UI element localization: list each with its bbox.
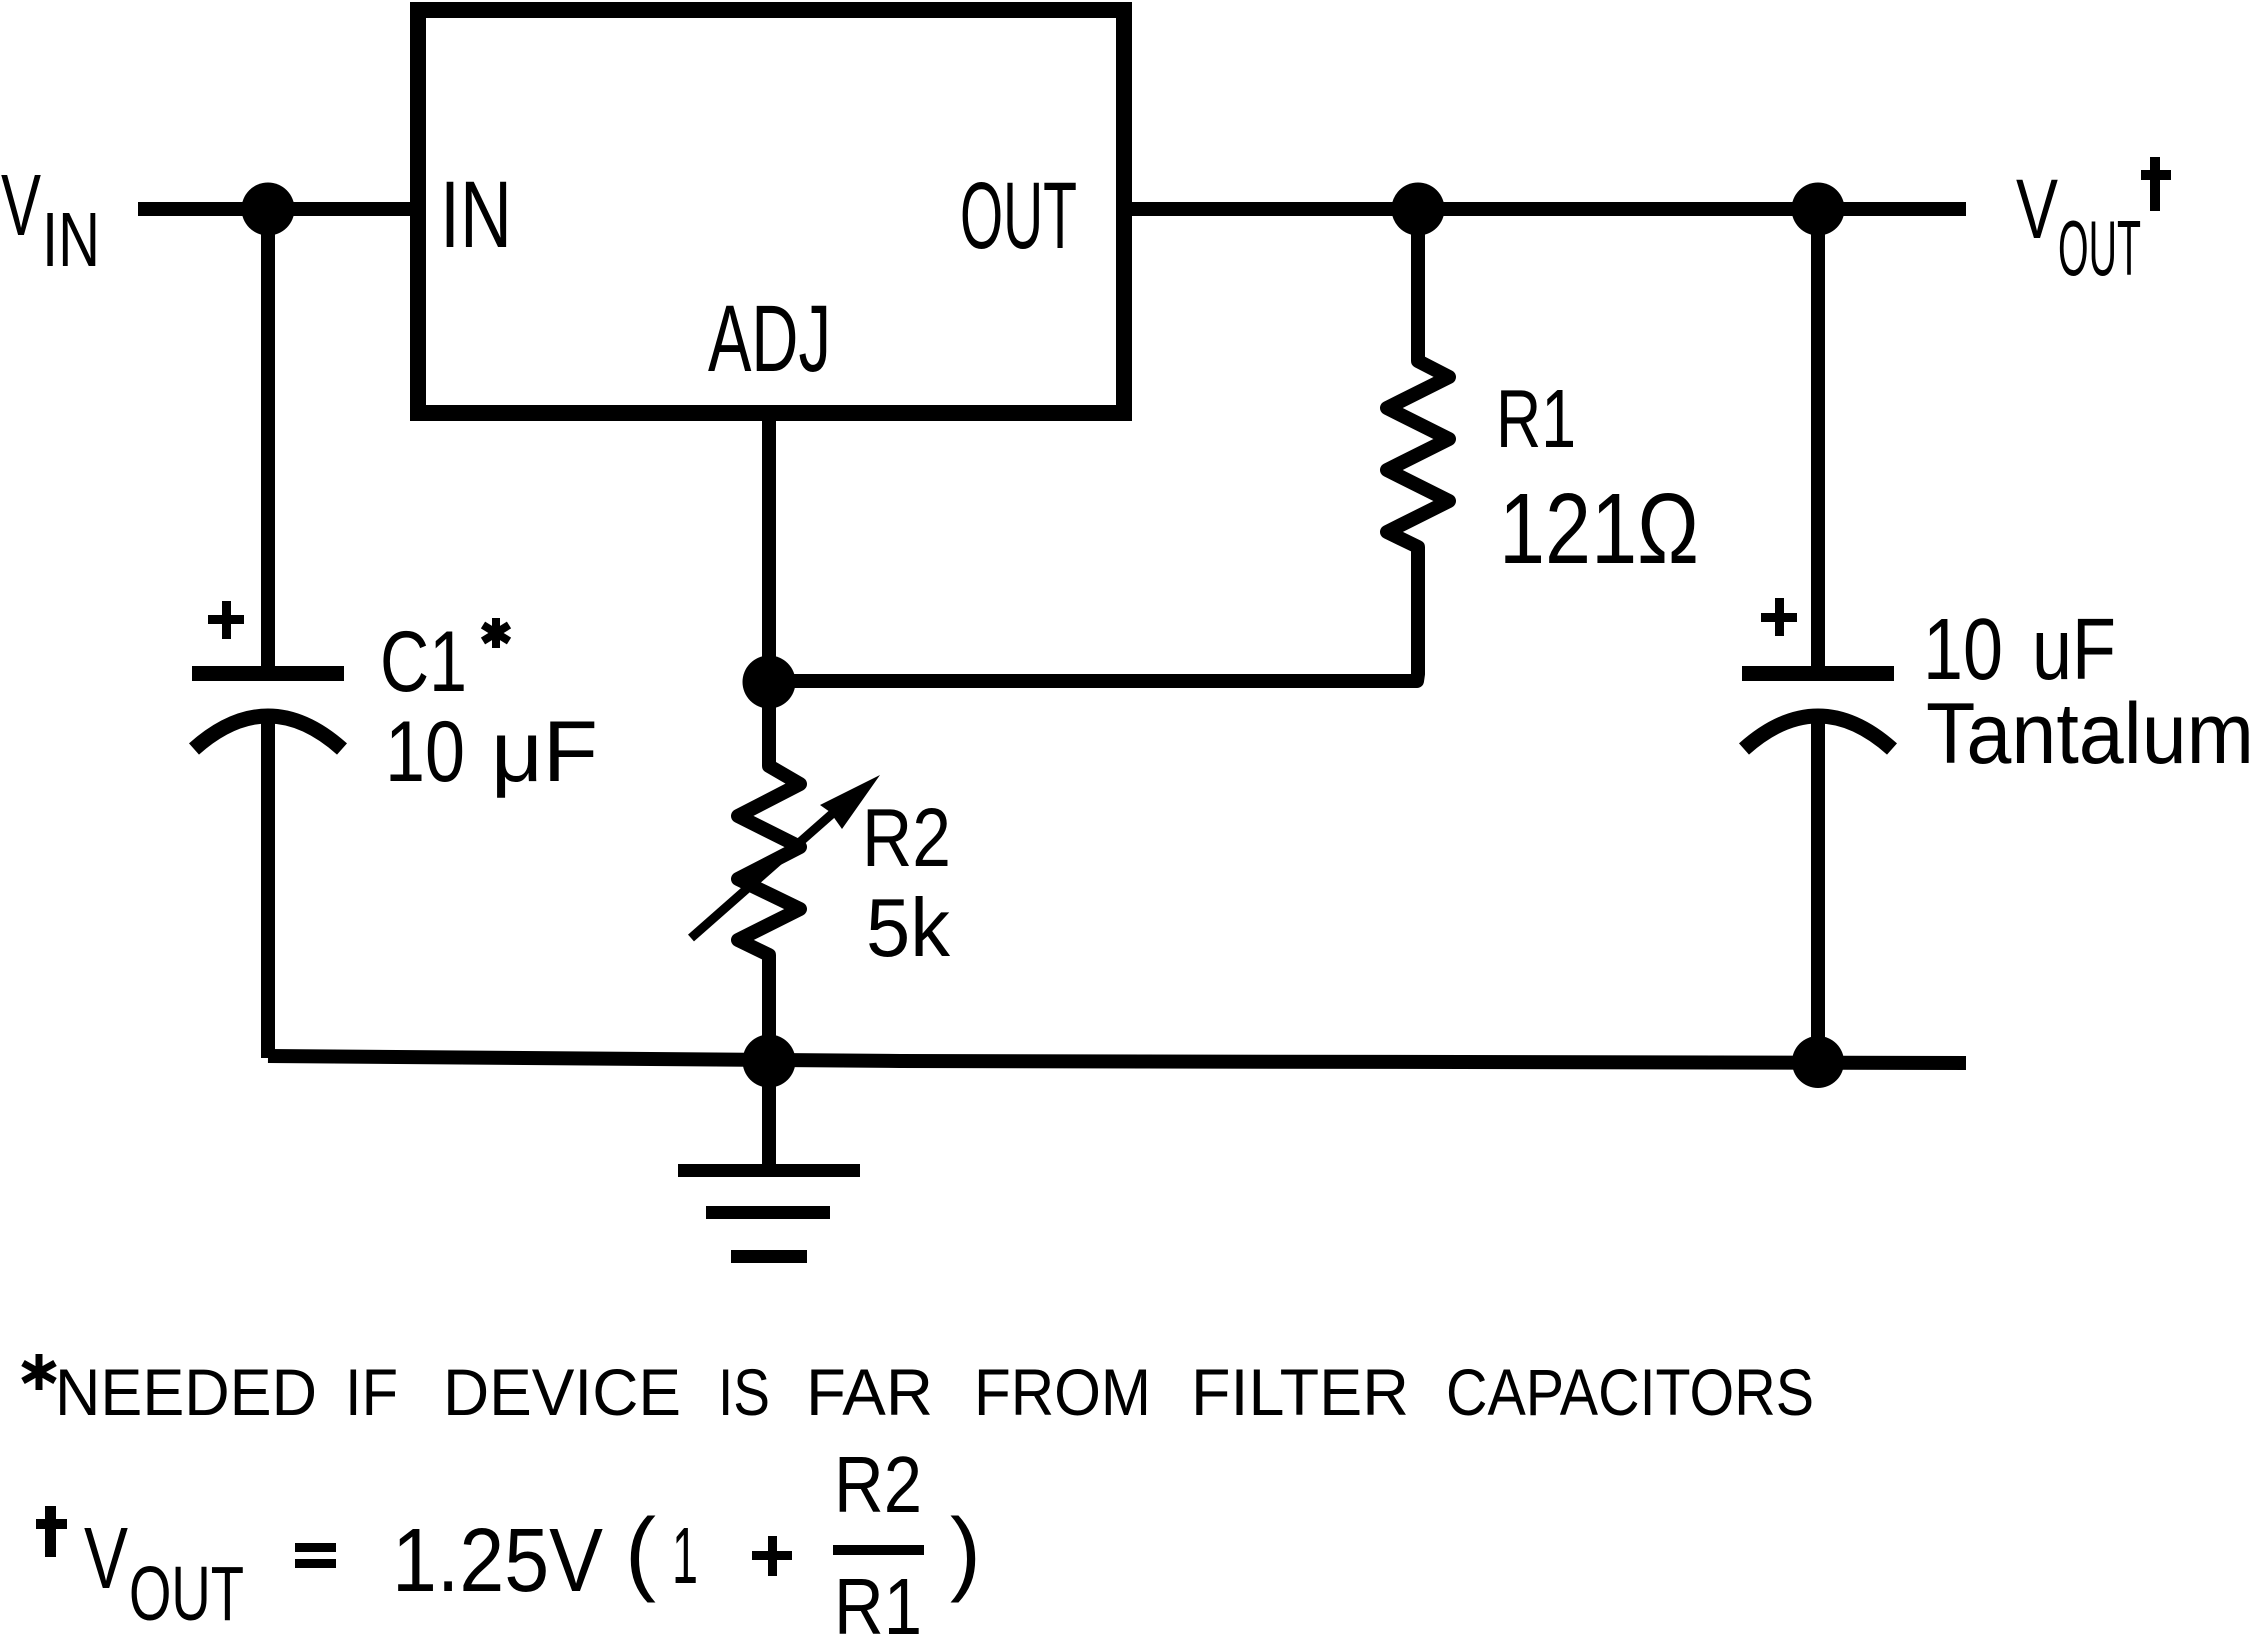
svg-text:CAPACITORS: CAPACITORS xyxy=(1446,1355,1814,1429)
svg-text:OUT: OUT xyxy=(2058,204,2141,292)
svg-text:FROM: FROM xyxy=(974,1355,1151,1429)
svg-text:R2: R2 xyxy=(862,791,951,884)
svg-text:IN: IN xyxy=(42,197,100,283)
svg-text:(: ( xyxy=(625,1499,656,1603)
svg-text:OUT: OUT xyxy=(960,163,1077,269)
svg-text:): ) xyxy=(950,1499,981,1603)
svg-text:R2: R2 xyxy=(834,1440,922,1529)
svg-text:μF: μF xyxy=(491,704,598,800)
svg-text:DEVICE: DEVICE xyxy=(443,1355,681,1429)
svg-text:uF: uF xyxy=(2032,601,2116,698)
svg-text:IN: IN xyxy=(440,162,512,268)
svg-text:121Ω: 121Ω xyxy=(1499,473,1699,585)
svg-text:ADJ: ADJ xyxy=(708,286,831,392)
svg-text:FAR: FAR xyxy=(806,1355,933,1429)
svg-text:V: V xyxy=(2016,162,2058,256)
svg-text:IS: IS xyxy=(718,1355,770,1429)
svg-text:1: 1 xyxy=(672,1511,698,1600)
svg-text:V: V xyxy=(1,157,41,254)
svg-text:FILTER: FILTER xyxy=(1191,1355,1409,1429)
svg-text:R1: R1 xyxy=(834,1562,922,1635)
svg-text:10: 10 xyxy=(385,704,465,800)
svg-text:1.25V: 1.25V xyxy=(392,1511,603,1611)
svg-text:OUT: OUT xyxy=(129,1551,244,1635)
svg-text:10: 10 xyxy=(1923,601,2003,698)
svg-text:V: V xyxy=(84,1510,128,1607)
svg-text:Tantalum: Tantalum xyxy=(1926,686,2254,782)
svg-text:IF: IF xyxy=(345,1355,398,1429)
svg-text:NEEDED: NEEDED xyxy=(55,1355,317,1429)
svg-text:C1: C1 xyxy=(380,614,467,710)
svg-text:5k: 5k xyxy=(866,881,950,974)
svg-text:R1: R1 xyxy=(1496,372,1576,465)
